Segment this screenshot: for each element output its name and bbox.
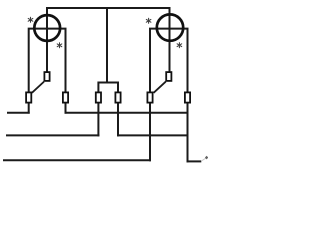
arrowhead to load	[202, 158, 206, 160]
wire terminal 4 to bus B right	[117, 103, 119, 136]
wire terminal 3 to bus B left	[97, 103, 99, 136]
terminal 1 (W1 current coil in, phase A)	[26, 92, 31, 102]
bus B right segment	[117, 134, 189, 136]
wattmeter W2 current coil wire	[150, 29, 188, 93]
fuse F2 in W2 voltage circuit	[166, 72, 171, 81]
polarity mark * W2 current coil	[146, 18, 151, 23]
polarity mark * W1 voltage coil	[57, 43, 62, 48]
wire terminal 1 to bus A	[28, 103, 30, 113]
wire terminal 2 to bus A right	[65, 103, 67, 113]
wire branch over terminals 3 and 4	[98, 83, 118, 93]
wattmeter W2	[157, 14, 183, 40]
terminal 4 (voltage link, phase B right)	[115, 92, 120, 102]
wattmeter W1	[34, 15, 60, 41]
polarity mark * W1 current coil	[28, 17, 33, 22]
terminal 5 (W2 current coil in, phase C)	[147, 92, 152, 102]
jumper wire from fuse F1 to terminal 1	[32, 82, 44, 93]
bus C	[3, 159, 151, 161]
wire to load with arrow	[187, 160, 202, 162]
fuse F1 in W1 voltage circuit	[44, 72, 49, 81]
wattmeter W1 current coil wire	[29, 29, 66, 93]
terminal 3 (voltage link, phase B left)	[96, 92, 101, 102]
terminal 2 (W1 current coil out)	[63, 92, 68, 102]
wire terminal 5 to bus C	[149, 103, 151, 161]
wire mid tap to voltage terminals	[106, 8, 108, 83]
wire top (voltage-coil link W1 to W2 with mid tap)	[47, 8, 170, 72]
bus A right segment	[65, 112, 189, 114]
terminal 6 (W2 current coil out)	[185, 92, 190, 102]
bus B left segment	[6, 134, 99, 136]
bus A left segment	[7, 112, 30, 114]
wire terminal 6 down to load	[187, 103, 189, 162]
polarity mark * W2 voltage coil	[177, 43, 182, 48]
jumper wire from fuse F2 to terminal 5	[154, 82, 166, 93]
